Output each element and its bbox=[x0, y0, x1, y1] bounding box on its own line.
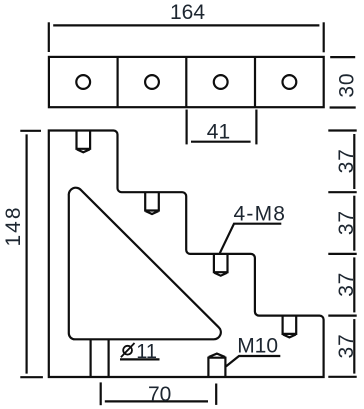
svg-text:37: 37 bbox=[335, 334, 358, 359]
dimension 37 tick at step 1 bbox=[328, 129, 356, 131]
dimension 37 line segment 4 bbox=[353, 319, 355, 374]
dimension 164 extension line left bbox=[48, 22, 50, 52]
dimension 164 line bbox=[53, 24, 319, 26]
dimension 70 extension line right bbox=[215, 384, 217, 405]
bar divider 2 bbox=[185, 57, 187, 107]
dimension 41 extension line right bbox=[255, 110, 257, 145]
bar divider 1 bbox=[116, 57, 118, 107]
dia symbol circle bbox=[123, 346, 132, 355]
svg-text:4-M8: 4-M8 bbox=[234, 202, 287, 225]
label dia11 underline bbox=[120, 358, 160, 360]
hole circle 4 bbox=[283, 75, 297, 89]
M8 screw step 2 bbox=[145, 193, 159, 214]
label 4-M8 leader bbox=[220, 224, 281, 254]
dia symbol slash bbox=[121, 343, 135, 357]
hole 11 right edge bbox=[107, 340, 109, 376]
svg-text:37: 37 bbox=[335, 148, 358, 173]
svg-text:41: 41 bbox=[207, 120, 230, 143]
top view bar outline bbox=[49, 57, 324, 107]
dimension 30 tick top bbox=[330, 56, 355, 58]
M10 screw bottom bbox=[208, 354, 225, 377]
svg-text:37: 37 bbox=[335, 272, 358, 297]
triangle cutout bbox=[69, 188, 221, 340]
dimension 41 line bbox=[191, 141, 251, 143]
dimension 148 tick bottom bbox=[20, 376, 43, 378]
svg-text:148: 148 bbox=[2, 205, 25, 246]
dimension 30 tick bottom bbox=[330, 106, 356, 108]
svg-text:37: 37 bbox=[335, 210, 358, 235]
dimension 164 extension line right bbox=[323, 22, 325, 52]
dimension 37 line segment 2 bbox=[353, 196, 355, 251]
bar divider 3 bbox=[254, 57, 256, 107]
hole circle 3 bbox=[214, 75, 228, 89]
M8 screw step 1 bbox=[77, 131, 91, 152]
dimension 70 extension line left bbox=[100, 382, 102, 405]
dimension 37 line segment 1 bbox=[353, 134, 355, 189]
hole 11 left edge bbox=[89, 340, 91, 376]
label M10 leader bbox=[226, 356, 280, 366]
svg-text:11: 11 bbox=[136, 341, 157, 363]
M8 screw step 4 bbox=[283, 316, 297, 337]
dimension 37 tick at step 3 bbox=[328, 253, 356, 255]
svg-text:164: 164 bbox=[170, 1, 205, 24]
dimension 41 extension line left bbox=[186, 110, 188, 145]
dimension 37 tick at step 2 bbox=[328, 191, 356, 193]
M8 screw step 3 bbox=[214, 254, 228, 275]
stepped bracket outline bbox=[49, 131, 324, 378]
dimension 70 line bbox=[105, 400, 208, 402]
dimension 148 tick top bbox=[20, 130, 41, 132]
dimension 37 line segment 3 bbox=[353, 257, 355, 312]
dimension 37 tick at bottom bbox=[328, 376, 356, 378]
svg-text:M10: M10 bbox=[237, 335, 278, 358]
svg-text:30: 30 bbox=[335, 73, 358, 98]
dimension 37 tick at step 4 bbox=[328, 315, 356, 317]
hole circle 2 bbox=[145, 75, 159, 89]
dimension 148 line bbox=[26, 134, 28, 373]
svg-text:70: 70 bbox=[148, 383, 171, 406]
hole circle 1 bbox=[76, 75, 90, 89]
